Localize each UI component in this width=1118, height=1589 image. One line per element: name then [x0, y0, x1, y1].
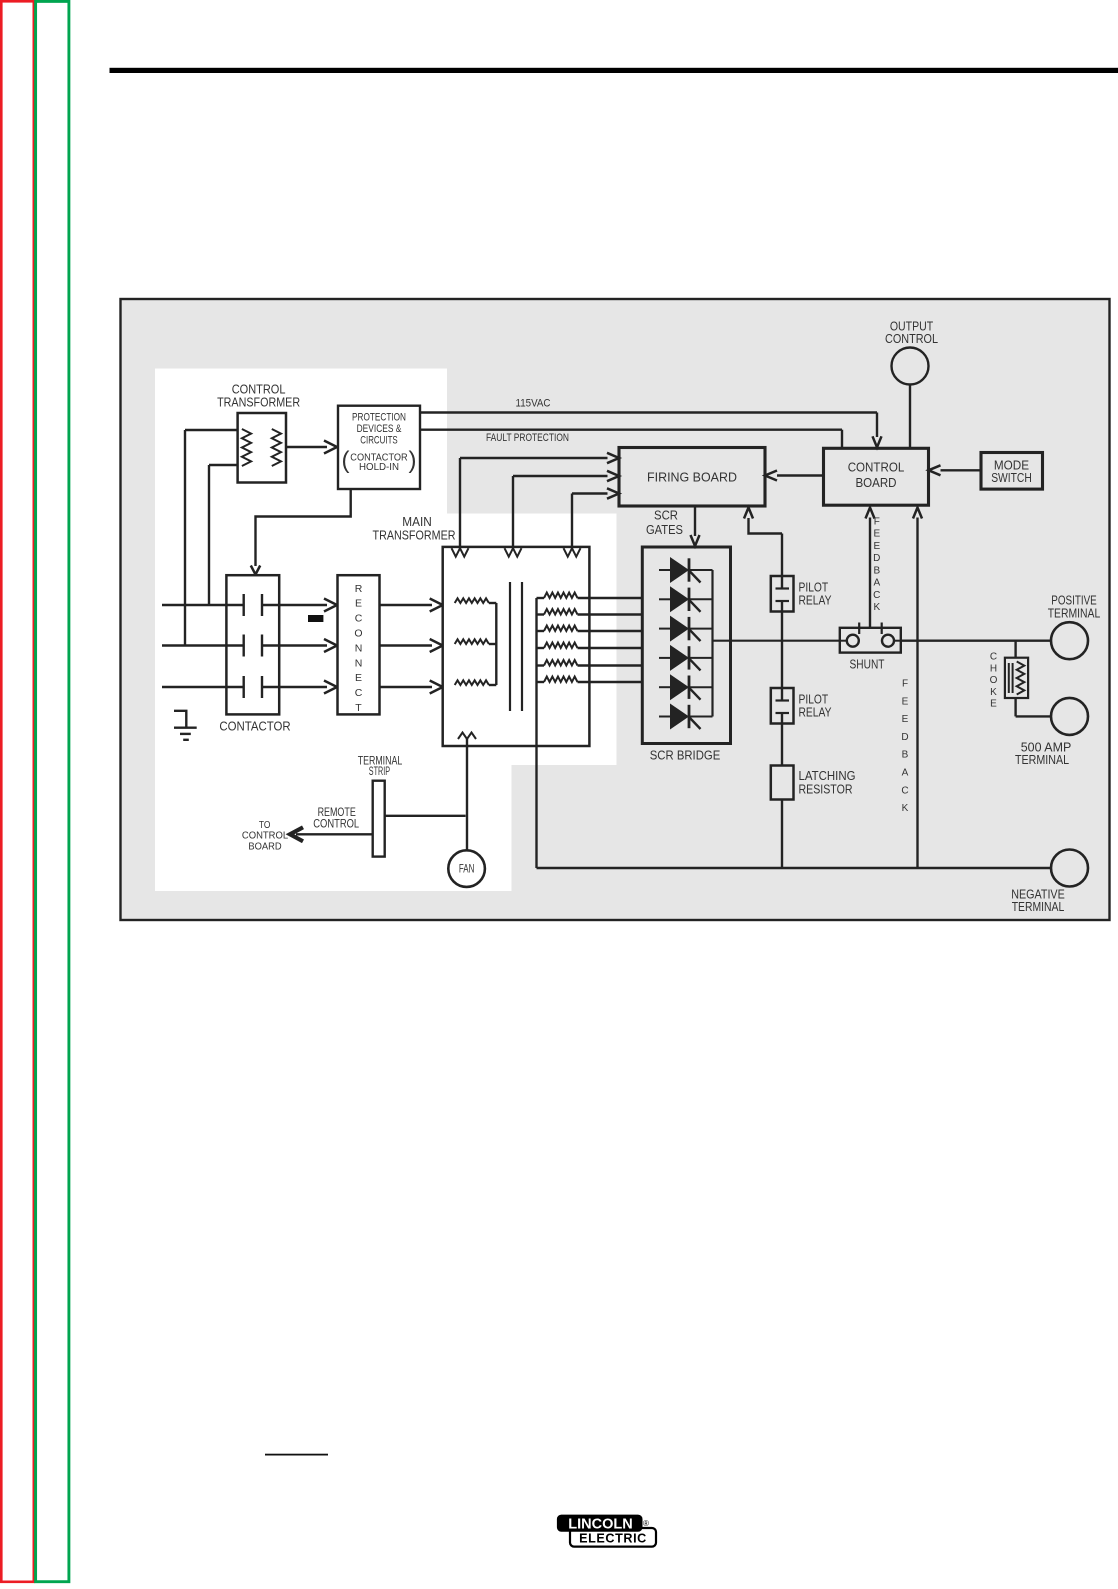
- svg-text:A: A: [902, 768, 909, 779]
- svg-text:TERMINAL: TERMINAL: [1015, 752, 1069, 767]
- svg-text:N: N: [355, 642, 363, 654]
- svg-text:E: E: [873, 529, 880, 540]
- svg-text:C: C: [355, 687, 363, 699]
- svg-text:O: O: [354, 628, 362, 640]
- svg-text:BOARD: BOARD: [855, 475, 896, 490]
- svg-text:RESISTOR: RESISTOR: [799, 782, 853, 797]
- svg-text:®: ®: [643, 1519, 649, 1528]
- svg-text:RELAY: RELAY: [799, 593, 832, 608]
- svg-text:BOARD: BOARD: [248, 842, 281, 853]
- svg-text:O: O: [990, 675, 998, 686]
- svg-text:LINCOLN: LINCOLN: [568, 1517, 632, 1533]
- svg-text:A: A: [873, 578, 880, 589]
- svg-text:SWITCH: SWITCH: [991, 470, 1032, 485]
- svg-text:RELAY: RELAY: [799, 705, 832, 720]
- svg-text:E: E: [902, 696, 909, 707]
- svg-text:SCR BRIDGE: SCR BRIDGE: [650, 748, 721, 763]
- svg-text:FIRING BOARD: FIRING BOARD: [647, 470, 737, 485]
- svg-text:CONTROL: CONTROL: [313, 817, 359, 831]
- svg-text:115VAC: 115VAC: [516, 398, 551, 410]
- svg-text:F: F: [874, 517, 880, 528]
- svg-text:K: K: [902, 803, 909, 814]
- svg-text:CONTACTOR: CONTACTOR: [219, 719, 290, 734]
- svg-text:STRIP: STRIP: [369, 764, 390, 778]
- svg-text:TRANSFORMER: TRANSFORMER: [217, 395, 300, 410]
- svg-text:PROTECTION: PROTECTION: [352, 412, 406, 424]
- svg-text:R: R: [355, 583, 363, 595]
- svg-text:CONTROL: CONTROL: [848, 460, 905, 475]
- svg-text:CIRCUITS: CIRCUITS: [360, 435, 397, 447]
- svg-text:SHUNT: SHUNT: [850, 657, 885, 672]
- svg-text:D: D: [901, 732, 908, 743]
- svg-text:C: C: [990, 652, 997, 663]
- svg-text:CONTROL: CONTROL: [242, 830, 288, 841]
- svg-text:D: D: [873, 553, 880, 564]
- svg-text:FAN: FAN: [459, 863, 475, 876]
- svg-text:K: K: [873, 602, 880, 613]
- svg-text:FAULT PROTECTION: FAULT PROTECTION: [486, 432, 569, 444]
- svg-text:E: E: [873, 541, 880, 552]
- svg-text:HOLD-IN: HOLD-IN: [359, 462, 399, 473]
- svg-text:F: F: [902, 679, 908, 690]
- svg-text:(: (: [342, 447, 350, 474]
- svg-text:GATES: GATES: [646, 522, 683, 537]
- svg-text:DEVICES &: DEVICES &: [357, 423, 402, 435]
- svg-text:CONTROL: CONTROL: [885, 331, 938, 346]
- svg-text:B: B: [873, 565, 880, 576]
- svg-text:N: N: [355, 657, 363, 669]
- svg-text:E: E: [355, 598, 362, 610]
- svg-text:SCR: SCR: [654, 508, 678, 523]
- svg-text:E: E: [355, 672, 362, 684]
- svg-text:TRANSFORMER: TRANSFORMER: [373, 528, 456, 543]
- svg-text:TERMINAL: TERMINAL: [1012, 899, 1065, 914]
- svg-text:T: T: [355, 702, 362, 714]
- svg-text:H: H: [990, 663, 997, 674]
- svg-text:E: E: [990, 699, 997, 710]
- svg-text:C: C: [873, 590, 880, 601]
- svg-text:C: C: [901, 785, 908, 796]
- svg-text:E: E: [902, 714, 909, 725]
- svg-text:): ): [409, 447, 417, 474]
- svg-text:C: C: [355, 613, 363, 625]
- svg-text:B: B: [902, 750, 909, 761]
- svg-text:TERMINAL: TERMINAL: [1048, 605, 1101, 620]
- svg-text:ELECTRIC: ELECTRIC: [579, 1531, 647, 1545]
- svg-text:K: K: [990, 687, 997, 698]
